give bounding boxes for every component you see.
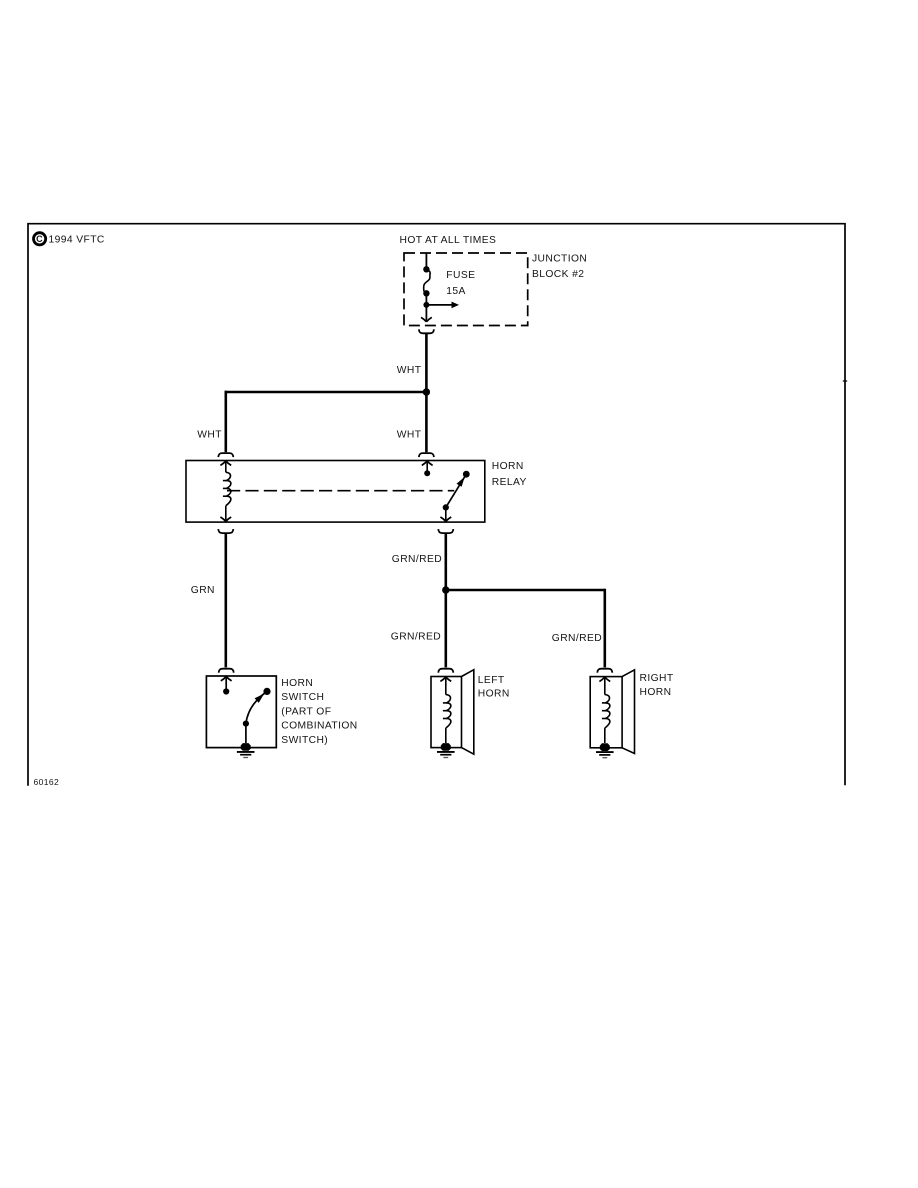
- svg-text:SWITCH: SWITCH: [281, 692, 324, 703]
- left horn coil: [443, 695, 451, 729]
- svg-text:WHT: WHT: [397, 365, 422, 376]
- connector into right horn: [597, 669, 612, 673]
- relay coil: [223, 472, 231, 506]
- tap arrow to right: [426, 302, 459, 309]
- horn switch box: [206, 676, 276, 748]
- left horn input arrow: [440, 677, 451, 695]
- right horn body: [590, 670, 634, 754]
- ground at horn switch: [237, 743, 255, 757]
- fuse output junction dot: [423, 302, 429, 308]
- svg-text:LEFT: LEFT: [478, 675, 505, 686]
- svg-text:C: C: [36, 234, 43, 244]
- wire WHT node A to relay: [425, 392, 428, 452]
- ground at right horn: [596, 743, 614, 757]
- svg-text:HOT AT ALL TIMES: HOT AT ALL TIMES: [400, 235, 497, 246]
- node A junction dot: [423, 388, 430, 395]
- wire GRN/RED relay to node B: [444, 534, 447, 590]
- connector into relay right: [419, 453, 434, 457]
- relay coil pin arrow down: [220, 506, 231, 522]
- horn switch ground wire: [245, 724, 247, 743]
- left horn coil lead: [445, 728, 447, 743]
- svg-text:15A: 15A: [446, 286, 466, 297]
- wire GRN/RED to right horn: [603, 589, 606, 668]
- connector below relay right: [438, 529, 453, 533]
- svg-text:FUSE: FUSE: [446, 270, 475, 281]
- svg-text:1994 VFTC: 1994 VFTC: [49, 234, 105, 245]
- svg-text:JUNCTION: JUNCTION: [532, 253, 587, 264]
- svg-text:GRN: GRN: [191, 585, 215, 596]
- svg-text:WHT: WHT: [397, 430, 422, 441]
- relay switch blade: [443, 471, 470, 511]
- relay switch common pin arrow: [422, 461, 433, 477]
- fuse F (15A): [423, 266, 430, 296]
- wire GRN/RED node B to left horn: [444, 590, 447, 667]
- svg-text:COMBINATION: COMBINATION: [281, 721, 357, 732]
- left horn body: [431, 670, 474, 755]
- copyright symbol: [34, 233, 46, 245]
- svg-text:WHT: WHT: [197, 430, 222, 441]
- junction block #2 dashed box: [404, 253, 528, 326]
- fold tick on right border: [843, 380, 847, 382]
- svg-text:(PART OF: (PART OF: [281, 706, 331, 717]
- wire node B to right horn branch: [446, 589, 605, 592]
- connector into relay left: [218, 453, 233, 457]
- wire from box top to fuse: [425, 254, 427, 267]
- svg-text:SWITCH): SWITCH): [281, 735, 328, 746]
- wire WHT fuse to node A: [425, 334, 428, 392]
- ground at left horn: [437, 743, 455, 757]
- down arrow leaving junction block: [421, 305, 432, 322]
- wire branch to left: [225, 391, 427, 394]
- svg-text:HORN: HORN: [478, 689, 510, 700]
- wire GRN relay to horn switch: [225, 534, 228, 668]
- svg-text:RELAY: RELAY: [492, 477, 527, 488]
- right horn coil lead: [604, 728, 606, 743]
- svg-text:HORN: HORN: [492, 461, 524, 472]
- svg-text:60162: 60162: [34, 777, 60, 787]
- svg-text:BLOCK #2: BLOCK #2: [532, 269, 584, 280]
- connector into left horn: [438, 669, 453, 673]
- right horn coil: [602, 695, 610, 729]
- relay output pin arrow down: [440, 507, 451, 521]
- wire fuse to tap: [425, 293, 427, 305]
- horn relay box: [186, 461, 485, 523]
- dashed actuation link: [227, 490, 454, 492]
- node B junction dot: [442, 586, 449, 593]
- svg-text:GRN/RED: GRN/RED: [391, 631, 441, 642]
- relay coil pin arrow up: [220, 461, 231, 473]
- svg-text:GRN/RED: GRN/RED: [392, 554, 442, 565]
- connector below relay left: [218, 529, 233, 533]
- connector below junction block: [419, 329, 434, 333]
- svg-text:HORN: HORN: [640, 687, 672, 698]
- connector into horn switch: [219, 669, 234, 673]
- right horn input arrow: [599, 677, 610, 695]
- horn switch input pin arrow: [221, 676, 232, 695]
- svg-text:RIGHT: RIGHT: [640, 673, 674, 684]
- label HORN SWITCH (PART OF COMBINATION SWITCH): [281, 678, 357, 746]
- svg-text:HORN: HORN: [281, 678, 313, 689]
- wire WHT left branch down: [225, 391, 228, 453]
- svg-text:GRN/RED: GRN/RED: [552, 633, 602, 644]
- horn switch blade: [243, 688, 271, 727]
- border frame (top, left, right; open bottom): [28, 224, 845, 786]
